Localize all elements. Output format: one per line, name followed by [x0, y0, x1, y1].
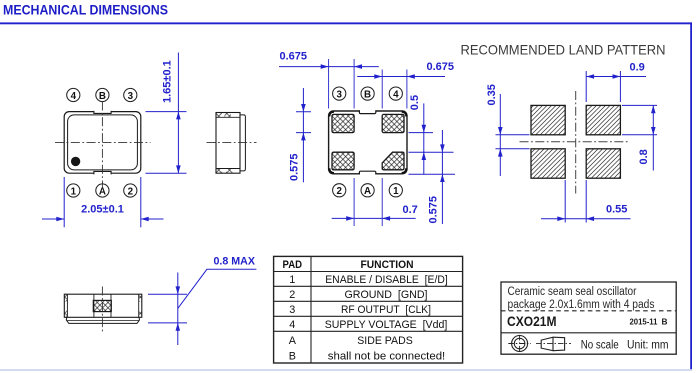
svg-text:3: 3	[128, 91, 134, 102]
land pattern vertical centerline	[575, 91, 577, 194]
svg-text:GROUND [GND]: GROUND [GND]	[345, 289, 428, 301]
table row 4	[289, 319, 447, 331]
title block dashed divider	[501, 310, 676, 312]
svg-text:2.05±0.1: 2.05±0.1	[81, 204, 124, 216]
svg-text:0.9: 0.9	[630, 62, 645, 74]
side view body	[216, 113, 240, 174]
svg-text:2015-11: 2015-11	[630, 316, 658, 326]
svg-text:B: B	[99, 91, 106, 102]
svg-text:Ceramic seam seal oscillator: Ceramic seam seal oscillator	[508, 286, 637, 298]
dimension 1.65±0.1	[146, 53, 187, 174]
svg-text:PAD: PAD	[283, 259, 303, 271]
svg-text:A: A	[99, 186, 106, 197]
page right border	[690, 22, 692, 369]
svg-text:No scale: No scale	[581, 340, 619, 352]
svg-text:3: 3	[289, 304, 295, 316]
pin circle A	[96, 184, 109, 197]
pin circle 1 (bottom view)	[389, 184, 402, 197]
svg-text:4: 4	[393, 89, 399, 100]
front view base	[66, 317, 139, 323]
pin circle 3 (bottom view)	[333, 87, 346, 100]
table row 2	[289, 289, 427, 301]
front view center pad (crosshatched)	[93, 300, 111, 311]
dimension 0.5 (right of bottom view)	[409, 103, 454, 174]
svg-text:0.35: 0.35	[486, 84, 498, 105]
front view centerline	[101, 287, 103, 332]
dimension 0.675 (upper left)	[279, 64, 379, 69]
top view horizontal centerline	[55, 142, 151, 144]
svg-text:1: 1	[289, 274, 295, 286]
svg-text:B: B	[662, 316, 668, 326]
title block description	[508, 286, 655, 311]
svg-text:1: 1	[71, 186, 77, 197]
pin circle 2	[124, 184, 137, 197]
pin circle 4	[67, 88, 80, 101]
dimension 0.9	[586, 71, 646, 102]
svg-text:B: B	[364, 89, 371, 100]
pin circle 3	[124, 88, 137, 101]
svg-text:RECOMMENDED LAND PATTERN: RECOMMENDED LAND PATTERN	[461, 43, 666, 58]
svg-text:1: 1	[393, 186, 399, 197]
svg-text:CXO21M: CXO21M	[507, 314, 557, 329]
side view centerline	[207, 142, 257, 144]
svg-text:Unit: mm: Unit: mm	[627, 340, 669, 352]
svg-text:SUPPLY VOLTAGE [Vdd]: SUPPLY VOLTAGE [Vdd]	[325, 319, 448, 331]
pin circle A (bottom view)	[361, 184, 374, 197]
svg-text:A: A	[289, 335, 297, 347]
svg-text:4: 4	[71, 91, 77, 102]
table row B	[289, 351, 446, 363]
pin 1 index dot	[71, 157, 80, 166]
svg-text:2: 2	[128, 186, 134, 197]
top view inner outline	[68, 115, 138, 170]
side view bottom metallization hatch	[216, 169, 232, 173]
svg-text:B: B	[289, 351, 296, 363]
land pad bottom-right	[586, 149, 620, 178]
pad 3 (top-left, crosshatched)	[332, 114, 354, 132]
svg-text:ENABLE / DISABLE [E/D]: ENABLE / DISABLE [E/D]	[325, 274, 448, 286]
table grid	[274, 256, 463, 363]
pad 4 (top-right, crosshatched)	[382, 114, 404, 132]
pin circle 4 (bottom view)	[389, 87, 402, 100]
svg-text:0.8: 0.8	[638, 149, 650, 164]
land pattern horizontal centerline	[520, 141, 631, 143]
svg-text:0.675: 0.675	[427, 61, 455, 73]
svg-text:0.7: 0.7	[403, 204, 418, 216]
corner castellation marks	[329, 112, 406, 173]
dimension 0.55	[541, 180, 631, 223]
svg-text:1.65±0.1: 1.65±0.1	[162, 60, 174, 103]
dimension 2.05±0.1	[42, 177, 164, 227]
land pad top-right	[586, 105, 620, 134]
table row 1	[289, 274, 447, 286]
svg-text:0.575: 0.575	[428, 196, 440, 224]
extension lines (bottom view)	[329, 59, 407, 226]
pin circle B	[96, 88, 109, 101]
svg-text:3: 3	[336, 89, 342, 100]
dimension 0.575 (right lower)	[409, 130, 456, 224]
title block frame	[501, 282, 676, 354]
svg-text:MECHANICAL DIMENSIONS: MECHANICAL DIMENSIONS	[3, 2, 168, 18]
projection symbol cone	[536, 337, 571, 351]
top view vertical centerline	[101, 102, 103, 188]
page rule (blue horizontal line under title)	[0, 22, 692, 24]
dimension 0.675 (upper right)	[357, 74, 445, 79]
bottom view outline	[329, 110, 407, 175]
svg-text:0.575: 0.575	[288, 153, 300, 181]
front view side terminal hatches	[65, 295, 142, 318]
svg-text:0.675: 0.675	[280, 51, 308, 63]
front view body	[64, 294, 142, 317]
svg-text:0.8 MAX: 0.8 MAX	[214, 256, 256, 268]
pin circle B (bottom view)	[361, 87, 374, 100]
projection symbol circle	[508, 335, 531, 352]
svg-text:shall not be connected!: shall not be connected!	[328, 351, 446, 363]
side view top metallization hatch	[216, 113, 231, 117]
page bottom light rule	[0, 369, 692, 371]
svg-text:2: 2	[336, 186, 342, 197]
dimension 0.8 MAX	[148, 269, 256, 345]
dimension 0.35	[496, 94, 530, 176]
svg-text:package 2.0x1.6mm with 4 pads: package 2.0x1.6mm with 4 pads	[508, 299, 655, 311]
svg-text:FUNCTION: FUNCTION	[361, 259, 414, 271]
side view lid	[240, 115, 245, 171]
svg-text:RF OUTPUT [CLK]: RF OUTPUT [CLK]	[341, 304, 431, 316]
pin circle 2 (bottom view)	[333, 184, 346, 197]
svg-text:2: 2	[289, 289, 295, 301]
land pad bottom-left	[531, 149, 565, 178]
top view outer outline	[64, 111, 141, 175]
svg-text:0.55: 0.55	[606, 204, 627, 216]
svg-text:SIDE PADS: SIDE PADS	[357, 335, 413, 347]
dimension 0.7 (bottom)	[332, 216, 416, 221]
svg-text:A: A	[364, 186, 371, 197]
table row 3	[289, 304, 431, 316]
pad 2 (bottom-left, crosshatched)	[332, 152, 354, 170]
pin circle 1	[67, 184, 80, 197]
pad 1 (bottom-right, chamfered, crosshatched)	[382, 152, 404, 170]
scale and unit note	[581, 340, 669, 352]
title block solid divider	[501, 332, 676, 334]
dimension 0.8	[622, 105, 657, 170]
svg-text:4: 4	[289, 319, 295, 331]
land pad top-left	[531, 105, 565, 134]
svg-text:0.5: 0.5	[409, 95, 421, 110]
table header	[283, 259, 414, 271]
dimension 0.575 (left)	[296, 88, 311, 182]
table row A	[289, 335, 413, 347]
